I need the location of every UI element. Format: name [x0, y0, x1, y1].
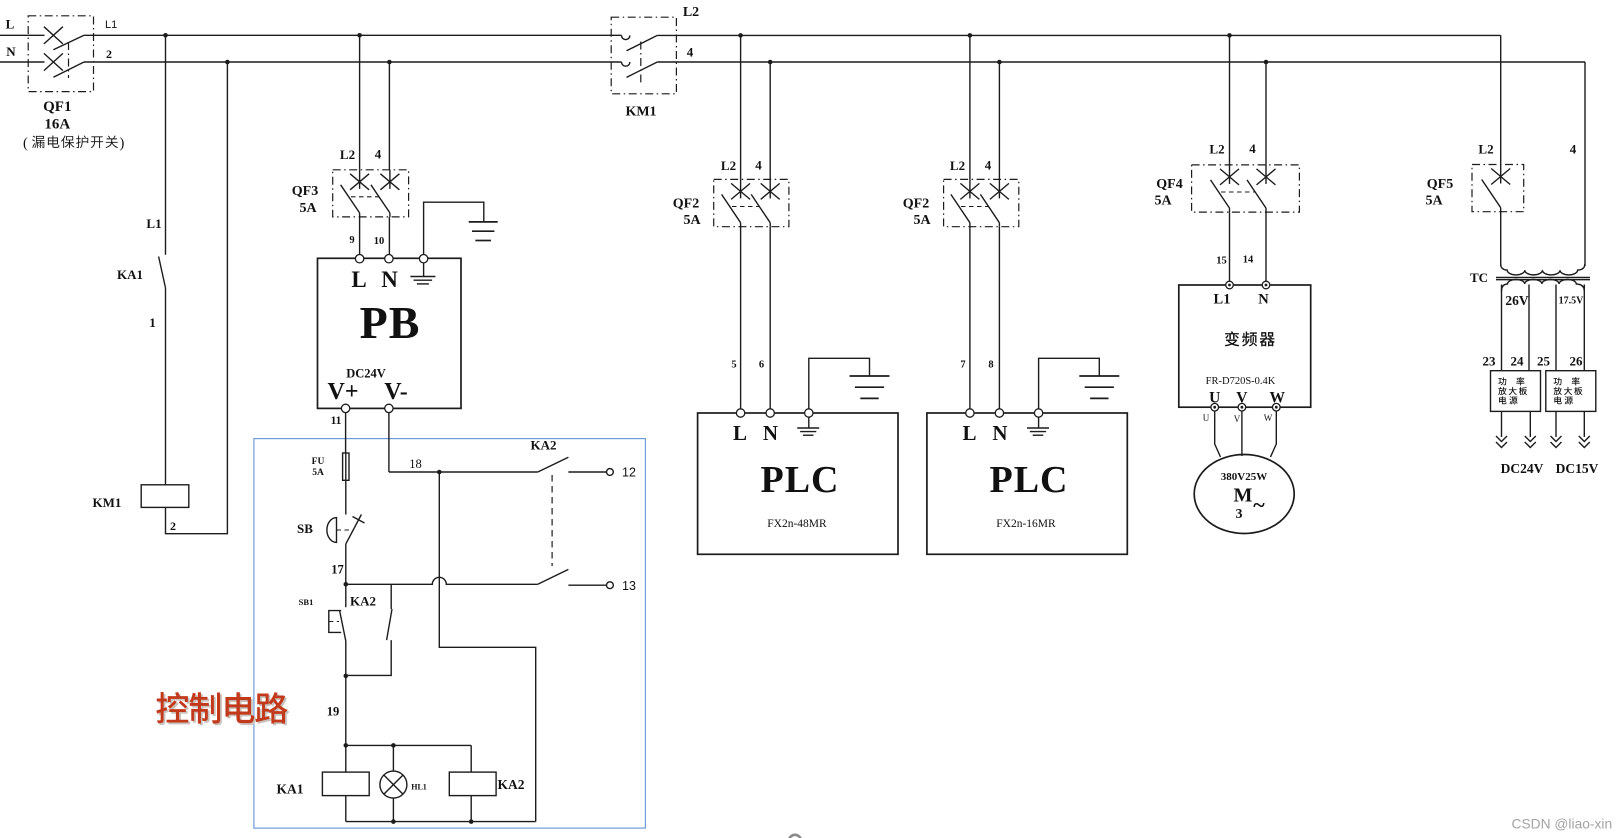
svg-text:8: 8	[988, 360, 993, 371]
svg-text:14: 14	[1243, 255, 1254, 266]
svg-text:24: 24	[1511, 354, 1525, 369]
node bottom KA2	[469, 819, 474, 824]
svg-text:3: 3	[1236, 507, 1243, 522]
wire branch rail	[346, 744, 471, 746]
svg-text:V-: V-	[384, 379, 408, 405]
wire 4 rail drop to TC	[1584, 62, 1586, 266]
node L2/QF2b	[968, 33, 973, 38]
svg-text:FX2n-48MR: FX2n-48MR	[767, 518, 827, 530]
wire 18	[389, 471, 538, 473]
control-circuit boundary box (blue)	[254, 439, 646, 828]
wire KM1 coil to N	[166, 62, 228, 534]
wire tap 26	[1583, 285, 1585, 371]
svg-text:2: 2	[106, 47, 112, 61]
wire PB earth to ground	[424, 202, 484, 254]
svg-text:5A: 5A	[312, 468, 324, 478]
breaker QF1 trip link (dash-dot)	[68, 42, 70, 78]
breaker QF5 box (dash-dot)	[1472, 165, 1524, 212]
breaker QF4 pole2	[1265, 165, 1267, 184]
svg-text:KA1: KA1	[277, 782, 304, 797]
breaker QF3 pole2	[389, 170, 391, 189]
svg-text:TC: TC	[1470, 270, 1488, 285]
wire KA2 coil bottom	[470, 796, 472, 822]
inverter U1 box	[1179, 285, 1311, 407]
svg-text:PB: PB	[360, 297, 421, 348]
wire tap 23	[1501, 285, 1503, 371]
svg-text:DC24V: DC24V	[1501, 461, 1544, 476]
svg-text:5A: 5A	[299, 201, 317, 216]
wire QF2b to PLC2 N	[998, 227, 1000, 409]
ground symbol (PLC2)	[1079, 375, 1119, 377]
wire L1 rail	[84, 34, 622, 36]
svg-text:17: 17	[331, 563, 344, 577]
svg-text:5: 5	[731, 360, 736, 371]
wire V+ to fuse	[345, 413, 347, 453]
breaker QF1 pole L blade	[53, 35, 84, 50]
svg-text:5A: 5A	[683, 213, 701, 228]
wire W to motor	[1271, 411, 1277, 457]
node 17	[344, 582, 349, 587]
node 4/QF2a	[768, 60, 773, 65]
svg-text:L2: L2	[1478, 142, 1493, 157]
breaker QF4 link (dashed)	[1221, 191, 1255, 193]
breaker QF1 pole N contact X	[44, 53, 63, 70]
svg-text:L: L	[733, 421, 747, 445]
breaker QF1 box (dash-dot)	[28, 16, 93, 92]
node 4/QF2b	[997, 60, 1002, 65]
svg-text:4: 4	[985, 158, 992, 173]
output arrow 26	[1583, 411, 1585, 437]
terminal PB earth	[419, 255, 427, 263]
node 2/KM1-coil branch	[225, 60, 230, 65]
wire SB to node17	[345, 544, 347, 584]
node 19 top	[344, 674, 349, 679]
svg-text:(: (	[23, 136, 28, 152]
label 控制电路 shadow	[158, 694, 190, 725]
breaker QF4 pole1	[1229, 165, 1231, 184]
wire node to 19	[345, 675, 347, 745]
svg-text:17.5V: 17.5V	[1559, 296, 1585, 307]
svg-text:QF1: QF1	[43, 99, 71, 115]
PLC1 box	[698, 413, 898, 554]
terminal PLC2 earth	[1034, 409, 1042, 417]
breaker QF1 pole N blade	[53, 62, 84, 77]
terminal inverter N	[1262, 281, 1270, 289]
terminal PLC1 L	[736, 409, 744, 417]
wire fuse to SB	[345, 480, 347, 514]
transformer TC secondary winding	[1502, 279, 1585, 291]
breaker QF2a pole2	[769, 179, 771, 198]
svg-text:13: 13	[622, 579, 636, 593]
wire 4 drop to QF4	[1265, 62, 1267, 165]
wire L2 corner to QF5	[1500, 35, 1502, 164]
output arrow 23	[1501, 411, 1503, 437]
breaker QF3 box (dash-dot)	[333, 170, 409, 217]
label 放大板 (box2)	[1553, 387, 1561, 395]
wire QF3 to PB N	[388, 217, 390, 255]
svg-text:U: U	[1203, 413, 1210, 423]
svg-text:N: N	[763, 421, 778, 445]
wire SB1 stub	[345, 584, 347, 607]
svg-text:KA2: KA2	[350, 594, 376, 609]
label 电源 (box1)	[1499, 396, 1506, 404]
label 电源 (box2)	[1554, 396, 1561, 404]
breaker QF2a link (dashed)	[732, 206, 759, 208]
svg-text:N: N	[6, 44, 16, 59]
svg-text:L1: L1	[105, 19, 117, 31]
terminal PB V-	[385, 404, 393, 412]
svg-text:N: N	[992, 421, 1007, 445]
svg-text:QF5: QF5	[1427, 177, 1453, 192]
contact KA2-a blade (to 12)	[538, 457, 569, 472]
svg-text:DC15V: DC15V	[1556, 461, 1599, 476]
wire QF5 to TC primary	[1500, 212, 1502, 266]
node branch HL1	[391, 743, 396, 748]
breaker QF2a pole1	[740, 179, 742, 198]
svg-text:V+: V+	[327, 379, 358, 405]
contactor KM1 contact1 blade	[627, 35, 658, 50]
terminal PLC2 L	[966, 409, 974, 417]
amplifier-power box 2	[1546, 371, 1596, 412]
wire return (18 to bottom)	[439, 472, 535, 822]
svg-text:QF2: QF2	[673, 197, 699, 212]
svg-text:15: 15	[1216, 256, 1227, 267]
breaker QF3 pole1	[359, 170, 361, 189]
wire QF2a to PLC1 L	[740, 227, 742, 409]
pushbutton SB1 bracket	[329, 611, 341, 633]
svg-text:KA2: KA2	[531, 438, 557, 453]
contact KA2-b blade (to 13)	[538, 569, 569, 584]
svg-text:4: 4	[687, 45, 694, 60]
terminal PB V+	[341, 404, 349, 412]
breaker QF3 link (dashed)	[351, 196, 379, 198]
wire tap 24	[1528, 285, 1530, 371]
terminal inverter L1	[1226, 281, 1234, 289]
terminal PLC2 N	[995, 409, 1003, 417]
wire KA2 contact stub	[390, 584, 392, 609]
wire KA1 coil bottom	[345, 796, 347, 822]
svg-text:QF4: QF4	[1156, 177, 1182, 192]
breaker QF1 pole L contact X	[44, 27, 63, 44]
power supply PB box	[318, 258, 462, 408]
svg-text:23: 23	[1483, 354, 1497, 369]
breaker QF4 box (dash-dot)	[1192, 165, 1300, 212]
wire KA1 to KM1 coil	[165, 288, 167, 485]
terminal PB L	[355, 255, 363, 263]
wire N drop to QF3	[388, 62, 390, 170]
terminal PLC1 earth	[805, 409, 813, 417]
wire L2 rail	[657, 34, 1500, 36]
wire 17 with jump over	[346, 577, 538, 584]
contactor KM1 contact2 blade	[627, 62, 658, 77]
terminal 12	[607, 469, 614, 476]
svg-text:4: 4	[1249, 141, 1256, 156]
contact SB1 blade	[340, 611, 346, 641]
svg-text:L1: L1	[1214, 292, 1231, 308]
svg-text:~: ~	[1253, 492, 1265, 517]
terminal inverter U	[1211, 403, 1219, 411]
wire to terminal 13	[568, 584, 606, 586]
label 变频器	[1225, 331, 1240, 346]
contact KA2 link (dashed)	[551, 475, 553, 566]
svg-text:L: L	[351, 267, 366, 292]
svg-text:5A: 5A	[913, 213, 931, 228]
svg-text:KA2: KA2	[498, 777, 525, 792]
svg-text:KM1: KM1	[625, 105, 656, 120]
svg-text:N: N	[1258, 292, 1269, 308]
transformer TC core	[1496, 277, 1590, 279]
node branch KA1	[344, 743, 349, 748]
svg-text:SB: SB	[297, 521, 313, 536]
svg-text:12: 12	[622, 466, 636, 480]
label 控制电路	[156, 692, 188, 723]
svg-text:HL1: HL1	[411, 783, 427, 792]
terminal inverter V	[1238, 403, 1246, 411]
fuse FU 5A	[343, 453, 349, 480]
breaker QF2b link (dashed)	[961, 206, 988, 208]
svg-text:11: 11	[331, 415, 342, 427]
svg-text:26V: 26V	[1505, 293, 1529, 308]
breaker QF2b box (dash-dot)	[944, 179, 1019, 226]
svg-text:QF3: QF3	[292, 184, 318, 199]
svg-text:FU: FU	[312, 457, 325, 467]
coil KA1	[322, 772, 369, 796]
wire QF4 to inverter L1	[1229, 212, 1231, 281]
svg-text:): )	[120, 136, 125, 152]
wire KA2 contact lower	[346, 640, 391, 675]
wire 4 drop to QF2b	[998, 62, 1000, 179]
wire QF2a to PLC1 N	[769, 227, 771, 409]
label 放大板 (box1)	[1498, 387, 1506, 395]
svg-text:FX2n-16MR: FX2n-16MR	[996, 518, 1056, 530]
svg-text:V: V	[1234, 414, 1241, 424]
contact KA2 blade (seal-in)	[387, 609, 392, 640]
wire 4 drop to QF2a	[769, 62, 771, 179]
svg-text:380V25W: 380V25W	[1221, 471, 1267, 483]
svg-text:L2: L2	[950, 158, 965, 173]
node bottom HL1	[391, 819, 396, 824]
wire KA1 coil top	[345, 745, 347, 772]
coil KM1	[141, 485, 189, 508]
wire HL1 top	[392, 745, 394, 771]
svg-text:5A: 5A	[1425, 194, 1443, 209]
svg-text:7: 7	[960, 360, 965, 371]
pushbutton SB link (dashed)	[337, 529, 353, 531]
wire SB1 lower	[345, 641, 347, 676]
svg-text:SB1: SB1	[299, 597, 314, 607]
wire QF2b to PLC2 L	[969, 227, 971, 409]
label 功率 (box2)	[1554, 377, 1562, 385]
svg-text:L: L	[6, 17, 15, 32]
ground symbol inside PB	[423, 263, 425, 277]
terminal PB N	[385, 255, 393, 263]
node 18/return	[437, 470, 442, 475]
ground symbol inside PLC2	[1038, 417, 1040, 428]
wire L2 drop to QF4	[1229, 35, 1231, 165]
svg-text:L2: L2	[721, 158, 736, 173]
wire L1 drop to KA1	[165, 35, 167, 255]
wire PLC1 earth up	[809, 358, 870, 409]
node L1/KA1 branch	[163, 33, 168, 38]
node L2/QF4	[1227, 33, 1232, 38]
node L1/QF3 branch	[357, 33, 362, 38]
wire V to motor	[1241, 411, 1243, 456]
svg-text:L2: L2	[340, 147, 355, 162]
wire N rail (2)	[84, 61, 622, 63]
wire PLC2 earth up	[1039, 358, 1100, 409]
svg-text:10: 10	[374, 236, 385, 247]
svg-text:FR-D720S-0.4K: FR-D720S-0.4K	[1206, 376, 1276, 387]
wire L1 drop to QF3	[359, 35, 361, 170]
wire L1 rail left (QF1 L input)	[0, 34, 45, 36]
svg-text:QF2: QF2	[903, 197, 929, 212]
wire U to motor	[1215, 411, 1221, 457]
breaker QF2a box (dash-dot)	[714, 179, 789, 226]
svg-text:5A: 5A	[1154, 194, 1172, 209]
wire to terminal 12	[568, 471, 606, 473]
node 2/QF3 branch	[387, 60, 392, 65]
svg-text:M: M	[1234, 485, 1253, 507]
contact KA1 blade	[159, 257, 166, 288]
transformer TC primary winding	[1501, 264, 1585, 275]
svg-text:L2: L2	[683, 5, 699, 20]
svg-text:CSDN @liao-xin: CSDN @liao-xin	[1512, 817, 1613, 832]
svg-text:19: 19	[327, 705, 340, 719]
svg-text:L: L	[962, 421, 976, 445]
svg-text:W: W	[1264, 413, 1273, 423]
breaker QF2b pole1	[969, 179, 971, 198]
svg-text:25: 25	[1537, 354, 1551, 369]
svg-text:26: 26	[1570, 354, 1584, 369]
wire HL1 bottom	[392, 798, 394, 822]
wire 4 rail	[657, 61, 1585, 63]
spinner arc (bottom)	[789, 835, 801, 838]
wire tap 25	[1555, 285, 1557, 371]
breaker QF2b pole2	[998, 179, 1000, 198]
svg-text:PLC: PLC	[990, 459, 1069, 501]
contactor KM1 contact2 fixed arc	[622, 62, 630, 66]
svg-text:4: 4	[375, 147, 382, 162]
PLC2 box	[927, 413, 1127, 554]
coil KA2	[449, 772, 496, 796]
wire QF3 to PB L	[359, 217, 361, 255]
contactor KM1 contact1 fixed arc	[622, 35, 630, 39]
svg-text:L2: L2	[1209, 142, 1224, 157]
svg-text:16A: 16A	[44, 117, 70, 133]
ground symbol inside PLC1	[808, 417, 810, 428]
svg-text:KM1: KM1	[93, 495, 122, 510]
contactor KM1 box (dash-dot)	[611, 17, 676, 94]
wire L2 drop to QF2b	[969, 35, 971, 179]
svg-text:4: 4	[755, 158, 762, 173]
ground symbol (PB)	[469, 221, 498, 223]
ground symbol (PLC1)	[850, 375, 890, 377]
svg-text:4: 4	[1570, 142, 1577, 157]
pushbutton SB blade	[346, 515, 362, 544]
svg-text:18: 18	[409, 457, 422, 471]
label (漏电保护开关)	[23, 135, 125, 151]
lamp HL1	[380, 771, 407, 798]
terminal PLC1 N	[766, 409, 774, 417]
terminal inverter W	[1273, 403, 1281, 411]
node 4/QF4	[1264, 60, 1269, 65]
breaker QF5 pole	[1500, 165, 1502, 184]
svg-text:2: 2	[170, 519, 176, 533]
svg-text:PLC: PLC	[761, 459, 840, 501]
wire V- down	[388, 413, 390, 472]
motor M1 circle	[1194, 455, 1294, 534]
node L2/QF2a	[738, 33, 743, 38]
output arrow 24	[1529, 411, 1531, 437]
svg-text:1: 1	[149, 315, 156, 330]
wire QF4 to inverter N	[1265, 212, 1267, 281]
wire KA2 coil top	[470, 745, 472, 772]
svg-text:L1: L1	[146, 216, 161, 231]
svg-text:KA1: KA1	[117, 267, 143, 282]
label 功率 (box1)	[1498, 377, 1506, 385]
wire bottom rail	[346, 821, 536, 823]
pushbutton SB head	[327, 518, 337, 543]
contactor KM1 mechanical link (dash-dot)	[640, 42, 642, 83]
wire N rail left (QF1 N input)	[0, 61, 45, 63]
output arrow 25	[1555, 411, 1557, 437]
svg-text:9: 9	[349, 235, 354, 246]
terminal 13	[607, 582, 614, 589]
wire L2 drop to QF2a	[740, 35, 742, 179]
amplifier-power box 1	[1491, 371, 1541, 412]
svg-text:N: N	[381, 267, 398, 292]
svg-text:6: 6	[759, 360, 764, 371]
